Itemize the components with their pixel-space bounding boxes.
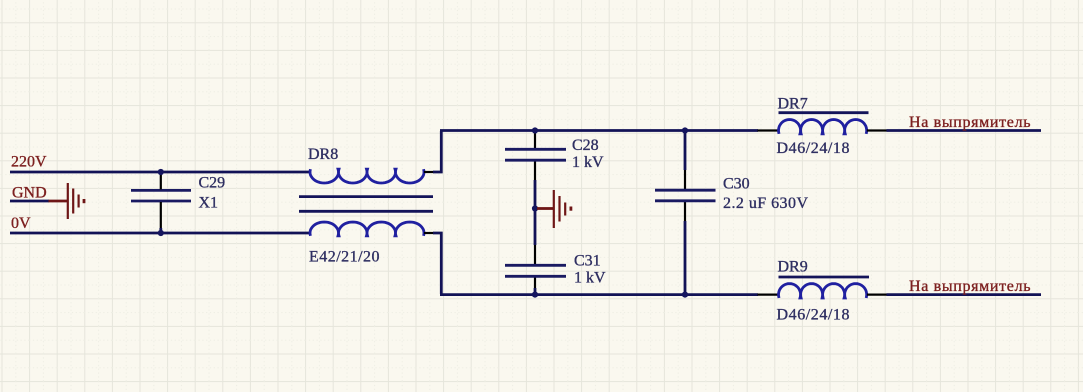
- transformer DR8 top-right pin: [424, 171, 434, 173]
- svg-text:D46/24/18: D46/24/18: [777, 307, 850, 324]
- wire 0V net: [10, 232, 310, 235]
- wire C30 bottom lead: [684, 221, 687, 295]
- capacitor C29 plates: [131, 190, 191, 201]
- inductor DR9 right pin: [867, 294, 887, 296]
- svg-text:D46/24/18: D46/24/18: [777, 140, 850, 157]
- svg-text:GND: GND: [12, 184, 47, 201]
- capacitor C28 pins: [534, 131, 536, 180]
- inductor DR7 bar: [779, 111, 869, 114]
- transformer DR8 bottom-right pin: [424, 232, 434, 234]
- svg-text:C29: C29: [199, 175, 226, 192]
- svg-text:2.2 uF 630V: 2.2 uF 630V: [723, 195, 808, 212]
- svg-text:DR7: DR7: [778, 95, 808, 112]
- wire C30 top lead: [684, 131, 687, 170]
- transformer DR8 top winding: [310, 169, 424, 183]
- wire C31 to bottom rail: [534, 288, 537, 295]
- capacitor C29 pins: [160, 173, 162, 229]
- inductor DR9 winding: [779, 284, 867, 298]
- wire bottom rail: [440, 293, 758, 296]
- svg-text:C31: C31: [574, 252, 601, 269]
- transformer DR8 bottom winding: [310, 222, 424, 236]
- ground symbol left: [49, 183, 85, 219]
- svg-text:E42/21/20: E42/21/20: [309, 249, 380, 266]
- junction ground node: [532, 205, 538, 211]
- junction top rail at C30: [682, 127, 688, 133]
- wire C29 bottom stub: [159, 228, 162, 233]
- capacitor C31 pins: [534, 245, 536, 288]
- inductor DR7 right pin: [867, 129, 887, 131]
- svg-text:1 kV: 1 kV: [574, 270, 606, 287]
- svg-text:220V: 220V: [11, 154, 47, 171]
- inductor DR7 left pin: [758, 129, 779, 131]
- svg-text:0V: 0V: [11, 215, 31, 232]
- svg-text:DR8: DR8: [308, 146, 338, 163]
- capacitor C31 plates: [505, 265, 566, 276]
- ground symbol middle: [537, 190, 571, 228]
- svg-text:X1: X1: [199, 194, 219, 211]
- wire C28 to ground node: [534, 180, 537, 245]
- wire DR8 bottom to rail: [433, 233, 441, 294]
- svg-text:1 kV: 1 kV: [572, 154, 604, 171]
- inductor DR9 left pin: [758, 294, 779, 296]
- svg-text:C30: C30: [723, 176, 750, 193]
- svg-text:C28: C28: [572, 137, 599, 154]
- inductor DR9 bar: [779, 276, 870, 279]
- junction bottom rail at C30: [682, 292, 688, 298]
- inductor DR7 winding: [779, 120, 867, 134]
- svg-text:На выпрямитель: На выпрямитель: [909, 114, 1031, 131]
- svg-text:На выпрямитель: На выпрямитель: [909, 278, 1031, 295]
- capacitor C28 plates: [505, 149, 566, 160]
- wire DR7 output: [887, 129, 1042, 132]
- capacitor C30 pins: [684, 170, 686, 221]
- capacitor C30 plates: [655, 190, 716, 201]
- transformer DR8 core lines: [299, 197, 433, 212]
- junction bottom rail at C31: [532, 292, 538, 298]
- wire top rail: [440, 129, 758, 132]
- wire 220V net: [10, 171, 310, 174]
- junction top rail at C28: [532, 127, 538, 133]
- junction C29 bottom: [158, 230, 164, 236]
- junction C29 top: [158, 169, 164, 175]
- wire GND net: [10, 200, 49, 203]
- wire DR8 top to rail: [433, 131, 441, 172]
- svg-text:DR9: DR9: [778, 258, 808, 275]
- wire DR9 output: [887, 293, 1042, 296]
